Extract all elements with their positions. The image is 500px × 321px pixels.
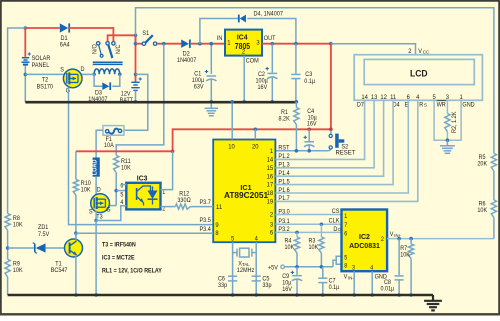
ADC IC2 ADC0831 [342, 210, 388, 272]
node divider mid [6, 246, 10, 250]
svg-text:RESET: RESET [336, 149, 356, 156]
wire D2 to IC4 IN (red) [191, 43, 225, 45]
node bus end at R1 [295, 100, 299, 104]
node C1 on bus [210, 100, 214, 104]
svg-text:+5V: +5V [268, 264, 279, 272]
svg-text:CS: CS [332, 207, 340, 215]
node C4 top tap [307, 128, 311, 132]
svg-text:IC2: IC2 [359, 232, 370, 241]
wire LCD pin5 WR to ground bracket [434, 100, 461, 140]
svg-text:14: 14 [267, 156, 274, 163]
svg-text:2: 2 [408, 48, 412, 55]
svg-text:S: S [89, 208, 93, 216]
svg-text:IN: IN [217, 35, 223, 43]
node S1 left [134, 42, 138, 46]
node R11 bottom / opto collector [114, 189, 118, 193]
svg-text:BS170: BS170 [37, 83, 54, 91]
svg-text:G: G [106, 206, 110, 214]
wire opto emitter pin4 to source node [96, 206, 126, 221]
svg-text:16V: 16V [307, 120, 318, 128]
switch S1 [135, 35, 137, 43]
svg-text:6: 6 [407, 94, 411, 101]
node R4 bottom on +5V [295, 265, 299, 269]
svg-text:S: S [60, 66, 64, 74]
svg-text:33p: 33p [218, 282, 228, 290]
wire S1 to D2 (red) [157, 43, 181, 45]
svg-text:33p: 33p [262, 282, 272, 290]
svg-text:6A4: 6A4 [60, 41, 70, 49]
wire RST line [275, 150, 328, 152]
relay RL1 coil [94, 69, 120, 74]
svg-text:P3.7: P3.7 [200, 199, 212, 207]
capacitor C4 10u 16V [308, 129, 310, 141]
resistor R9 10K [5, 259, 10, 277]
svg-text:2: 2 [270, 211, 274, 218]
svg-text:PANEL: PANEL [32, 61, 50, 69]
svg-text:R2, 1.2K: R2, 1.2K [450, 111, 458, 133]
capacitor C8 0.01u [398, 239, 400, 276]
wire IC1 pin10 GND to bus [231, 102, 233, 139]
svg-text:10K: 10K [121, 164, 131, 172]
svg-text:IC3: IC3 [137, 175, 148, 182]
node R7 tap [409, 237, 413, 241]
svg-text:18: 18 [267, 190, 274, 197]
svg-text:COM: COM [246, 57, 259, 65]
wire battery minus to ground bus [135, 90, 137, 102]
svg-text:IN+: IN+ [394, 233, 401, 238]
svg-text:D: D [81, 66, 85, 74]
transistor T3 IRF540N MOSFET [91, 194, 110, 213]
svg-text:11: 11 [390, 94, 397, 101]
node S2 top corner [329, 128, 333, 132]
diode D1 6A4 [25, 27, 60, 29]
wire +5V red to R10 top [76, 150, 173, 152]
svg-text:16: 16 [267, 173, 274, 180]
svg-text:10K: 10K [285, 244, 295, 252]
upper ground bus (battery negative) [25, 101, 296, 104]
wire T2 drain to coil [82, 73, 94, 75]
svg-text:CC: CC [423, 49, 430, 54]
svg-text:8.2K: 8.2K [279, 115, 290, 123]
resistor R12 330ohm [175, 204, 190, 209]
svg-text:0.1µ: 0.1µ [304, 77, 315, 85]
svg-text:6: 6 [270, 229, 274, 236]
capacitor C1 100u 63V [210, 44, 212, 74]
wire T1 collector up to P3.4 node [75, 233, 77, 240]
svg-text:S1: S1 [142, 30, 149, 38]
node battery rail top [134, 34, 138, 38]
crystal XTAL 12MHz [233, 252, 237, 254]
svg-text:10K: 10K [400, 251, 410, 259]
svg-text:LOAD: LOAD [92, 159, 98, 175]
wire IC1 pin20 Vcc [254, 129, 256, 139]
resistor R8 10K [5, 214, 10, 231]
node S1 output to R11 feed [162, 42, 166, 46]
capacitor C7 0.1u [322, 267, 324, 278]
svg-text:ADC0831: ADC0831 [349, 241, 380, 250]
resistor R10 10K [75, 151, 77, 179]
svg-text:1: 1 [459, 94, 463, 101]
svg-text:IN-: IN- [348, 275, 354, 280]
wires P1.2-P1.7 staircase to LCD [275, 100, 364, 159]
connector LOAD [93, 158, 100, 177]
wire solar bottom to T2 source [25, 73, 63, 75]
wire P3.2 to IC2 Do [275, 231, 341, 233]
svg-text:20: 20 [252, 143, 259, 150]
svg-text:3: 3 [446, 94, 450, 101]
svg-text:S: S [424, 102, 427, 107]
svg-text:WR: WR [437, 101, 447, 109]
resistor R7 10K [410, 239, 412, 244]
node R7 on bus [409, 293, 413, 297]
node pin4 line on bus [254, 293, 258, 297]
svg-text:10K: 10K [13, 267, 23, 275]
svg-text:OUT: OUT [264, 35, 276, 43]
svg-text:CLK: CLK [329, 217, 341, 225]
zener diode ZD1 7.5V [8, 247, 34, 249]
resistor R5 20K battery divider top [491, 154, 496, 172]
svg-text:14: 14 [361, 94, 368, 101]
node pin5 line on bus [231, 293, 235, 297]
svg-text:16V: 16V [258, 84, 269, 92]
node C2 on bus [271, 100, 275, 104]
capacitor C5 33p [252, 275, 261, 277]
wire solar panel bottom to upper ground bus [24, 66, 26, 103]
svg-text:RST: RST [278, 144, 289, 152]
svg-text:2: 2 [242, 48, 246, 55]
wire battery plus to fuse F1 [124, 74, 148, 130]
regulator IC4 7805 [225, 30, 262, 56]
LCD module [354, 55, 482, 101]
svg-text:T3 = IRF540N: T3 = IRF540N [102, 242, 136, 249]
node COM on bus [242, 100, 246, 104]
microcontroller IC1 AT89C2051 [213, 140, 275, 243]
node C8 tap [397, 237, 401, 241]
node solar bottom junction [24, 73, 28, 77]
svg-text:D: D [97, 186, 101, 194]
svg-text:10K: 10K [477, 207, 487, 215]
svg-text:BC547: BC547 [51, 267, 68, 275]
resistor R6 10K [491, 200, 496, 218]
node C4 on RST [307, 149, 311, 153]
wire battery top rail from S1 node (blue, top of page) [136, 8, 494, 154]
svg-text:3: 3 [270, 221, 274, 228]
wire D1 cathode to relay N/C contact (red) [68, 28, 113, 42]
diode D3 1N4007 freewheel loop [94, 74, 102, 86]
svg-text:13: 13 [371, 94, 378, 101]
wire T3 gate [109, 205, 116, 207]
svg-text:GND: GND [462, 101, 475, 109]
svg-text:IC3 = MCT2E: IC3 = MCT2E [102, 255, 135, 262]
node battery plus / coil junction [134, 73, 138, 77]
svg-text:0.01µ: 0.01µ [381, 285, 395, 293]
wire P3.0 to IC2 CS [275, 214, 341, 216]
svg-text:12MHz: 12MHz [237, 267, 254, 275]
node +5V to opto anode [171, 150, 175, 154]
capacitor C9 10u 16V [296, 267, 298, 275]
svg-text:10K: 10K [13, 221, 23, 229]
svg-text:LCD: LCD [410, 68, 428, 78]
node D4 tap before regulator [198, 42, 202, 46]
node C7 on bus [321, 293, 325, 297]
svg-text:10: 10 [228, 143, 235, 150]
wire IC1 pin5 to bus [232, 242, 234, 295]
node R10 bottom to P3.4 [74, 231, 78, 235]
wire LOAD to T3 drain [95, 177, 97, 196]
wire IC2 pin4 GND to bus [371, 271, 373, 295]
svg-text:1: 1 [227, 39, 231, 46]
svg-text:10K: 10K [81, 186, 91, 194]
wire IC1 pin4 to bus [255, 242, 257, 295]
svg-text:330Ω: 330Ω [177, 197, 191, 205]
svg-text:AT89C2051: AT89C2051 [224, 190, 269, 200]
wire T2 gate down to P3.5 line [69, 88, 214, 225]
resistor R3 10K pull-up [320, 223, 324, 227]
svg-text:D7: D7 [357, 101, 365, 109]
svg-text:N/O: N/O [91, 44, 99, 54]
relay RL1 contacts N/O N/C [97, 42, 100, 45]
svg-text:P3.5: P3.5 [200, 217, 212, 225]
wire R8 to R9 [7, 230, 9, 259]
svg-text:20K: 20K [477, 160, 487, 168]
wire IC2 pin2 Vin+ line [387, 238, 494, 240]
svg-text:10K: 10K [309, 244, 319, 252]
svg-text:19: 19 [267, 198, 274, 205]
node battery minus on bus [134, 100, 138, 104]
node coil left [92, 73, 96, 77]
capacitor C3 0.1u [295, 44, 297, 74]
svg-text:17: 17 [267, 181, 274, 188]
wire T3 source to node [95, 211, 97, 221]
capacitor C2 100u 16V [271, 44, 273, 73]
node pin10 on bus [230, 100, 234, 104]
wire solar panel positive drop (red) [24, 28, 26, 57]
terminal +5V [281, 265, 285, 269]
wire opto pin5 stub [116, 190, 126, 192]
svg-text:N/C: N/C [114, 44, 122, 54]
wire solar top to left rail corner [8, 28, 26, 214]
wire P3.1 to IC2 CLK [275, 223, 341, 225]
wire T1 emitter to ground bus [75, 256, 77, 295]
svg-text:16V: 16V [282, 286, 293, 294]
svg-text:P3.4: P3.4 [200, 226, 212, 234]
ground symbol main [432, 295, 434, 300]
ground below R2 [446, 140, 448, 145]
svg-text:RL1 = 12V, 1C/O RELAY: RL1 = 12V, 1C/O RELAY [102, 268, 162, 275]
wire opto anode pin1 to +5V [161, 151, 173, 189]
capacitor C6 33p [228, 275, 237, 277]
svg-text:7.5V: 7.5V [38, 230, 50, 238]
wire opto cathode pin2 to R12 [161, 206, 176, 208]
wire IC4 OUT rail (red +5V) [262, 43, 331, 45]
node R3 bottom on +5V [320, 265, 324, 269]
node C2 tap [271, 42, 275, 46]
node D4/C3 tap [294, 42, 298, 46]
node T3 source on bus [94, 293, 98, 297]
node T1 emitter on bus [74, 293, 78, 297]
ground below C1 [210, 103, 212, 108]
optocoupler IC3 MCT2E [126, 183, 160, 210]
wire S1 output down to R11 (switched 12V) [116, 44, 164, 156]
resistor R4 10K pull-up [295, 231, 299, 235]
node Vcc branch to LCD [329, 42, 333, 46]
wire IC2 pins 5 8 bracket [336, 256, 341, 264]
node IC1 Vcc pin20 tap [254, 128, 258, 132]
wire R5 to R6 [493, 171, 495, 200]
relay RL1 core [93, 61, 123, 63]
node coil right [118, 73, 122, 77]
node C9 on bus [295, 293, 299, 297]
fuse F1 10A [103, 126, 124, 136]
transistor T2 BS170 MOSFET [63, 69, 82, 88]
node C8 on bus [397, 293, 401, 297]
svg-text:63V: 63V [194, 83, 205, 91]
lower ground bus [8, 294, 433, 297]
wire P3.4 line [76, 232, 213, 234]
diode D4 1N4007 bypass [200, 19, 239, 44]
svg-text:1N4007: 1N4007 [177, 57, 197, 65]
wire IC4 COM to ground bus [243, 56, 245, 103]
svg-text:11: 11 [216, 204, 223, 211]
switch S2 RESET [330, 131, 332, 135]
resistor R2 1.2K contrast [446, 100, 448, 113]
node A solar positive junction [24, 26, 28, 30]
svg-text:R: R [419, 101, 423, 109]
wire R9 bottom to ground bus [7, 277, 9, 295]
svg-text:8: 8 [215, 230, 219, 237]
node IC2 GND on bus [370, 293, 374, 297]
svg-text:15: 15 [267, 165, 274, 172]
wire R6 bottom to Vin+ line [493, 218, 495, 239]
svg-text:D4, 1N4007: D4, 1N4007 [254, 10, 284, 18]
svg-text:4: 4 [416, 94, 420, 101]
node Vin- on bus [352, 293, 356, 297]
wire IC2 pin3 Vin- to bus [353, 271, 355, 295]
wire relay pole to S1 node (red) [108, 35, 136, 41]
resistor R1 8.2K [295, 102, 297, 107]
svg-text:9: 9 [215, 222, 219, 229]
node R2 bottom [446, 138, 450, 142]
svg-text:1: 1 [270, 148, 274, 155]
svg-text:3: 3 [256, 39, 260, 46]
node R1 on RST [295, 149, 299, 153]
svg-text:12: 12 [380, 94, 387, 101]
svg-text:5: 5 [432, 94, 436, 101]
wire +5V rail to IC2 [284, 266, 333, 268]
battery 12V red lead [135, 35, 137, 81]
wire fuse F1 to LOAD [96, 130, 103, 157]
resistor R11 10K [114, 155, 119, 172]
svg-text:10A: 10A [104, 141, 115, 149]
svg-text:5: 5 [231, 235, 235, 242]
solar panel SOLAR PANEL [22, 57, 29, 59]
battery 12V plates [139, 78, 142, 80]
wire source node to ground bus [95, 221, 97, 296]
wire R12 to IC1 P3.7 pin11 [190, 206, 213, 208]
node T3 source [94, 219, 98, 223]
svg-text:4: 4 [255, 235, 259, 242]
wire +5V red rail from OUT down and across [173, 44, 331, 152]
transistor T1 BC547 [65, 239, 83, 257]
diode D2 1N4007 [181, 40, 189, 48]
svg-text:0.1µ: 0.1µ [329, 284, 340, 292]
wire LCD Vcc from +5V rail [331, 44, 416, 55]
